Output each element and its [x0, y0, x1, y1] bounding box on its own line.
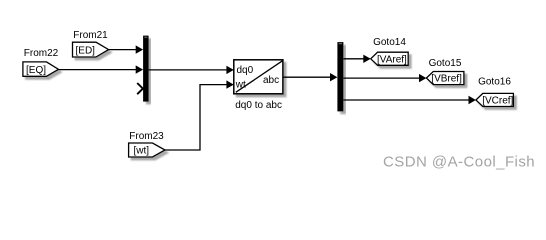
block Goto16 tag [VCref]: [476, 93, 514, 106]
svg-text:CSDN @A-Cool_Fish: CSDN @A-Cool_Fish: [383, 153, 535, 170]
svg-text:Goto15: Goto15: [429, 58, 462, 69]
label Goto15: [429, 58, 462, 69]
wire dq0-to-abc to Demux1: [283, 73, 338, 81]
svg-text:From23: From23: [129, 131, 164, 142]
label From22: [24, 48, 59, 59]
label From21: [73, 30, 108, 41]
wire Mux1 to dq0-to-abc: [149, 66, 234, 74]
svg-text:dq0 to abc: dq0 to abc: [235, 100, 282, 111]
mux Mux1: [143, 36, 149, 102]
svg-text:wt: wt: [235, 80, 246, 91]
block dq0 to abc: [234, 60, 283, 94]
wire Demux1 to Goto16: [343, 96, 476, 104]
svg-text:abc: abc: [263, 75, 279, 86]
svg-text:Goto14: Goto14: [373, 37, 406, 48]
svg-text:[VCref]: [VCref]: [482, 96, 513, 107]
svg-text:[wt]: [wt]: [134, 146, 150, 157]
block Goto14 tag [VAref]: [371, 52, 409, 65]
demux Demux1: [337, 42, 343, 111]
svg-text:[EQ]: [EQ]: [26, 65, 46, 76]
wire Demux1 to Goto14: [343, 55, 370, 63]
svg-text:From21: From21: [73, 30, 108, 41]
svg-text:Goto16: Goto16: [478, 77, 511, 88]
wire From21 to Mux1: [109, 45, 144, 53]
wire From22 to Mux1: [59, 65, 144, 73]
svg-text:From22: From22: [24, 48, 59, 59]
wire From23 to dq0-to-abc wt input: [165, 80, 234, 150]
svg-text:[VBref]: [VBref]: [431, 74, 462, 85]
block From23 tag [wt]: [129, 143, 165, 157]
wire Demux1 to Goto15: [343, 74, 426, 82]
block From21 tag [ED]: [73, 42, 109, 57]
label dq0 to abc: [235, 100, 282, 111]
highlight artifact on Mux1: [144, 37, 147, 38]
svg-text:[ED]: [ED]: [76, 45, 96, 56]
watermark CSDN @A-Cool_Fish: [383, 153, 535, 170]
svg-text:dq0: dq0: [237, 65, 254, 76]
label Goto14: [373, 37, 406, 48]
unconnected port Mux1 input 3: [137, 83, 143, 94]
highlight artifact on Demux1: [339, 43, 342, 44]
block From22 tag [EQ]: [23, 62, 59, 76]
svg-text:[VAref]: [VAref]: [377, 54, 407, 65]
label From23: [129, 131, 164, 142]
label Goto16: [478, 77, 511, 88]
block Goto15 tag [VBref]: [426, 72, 464, 85]
